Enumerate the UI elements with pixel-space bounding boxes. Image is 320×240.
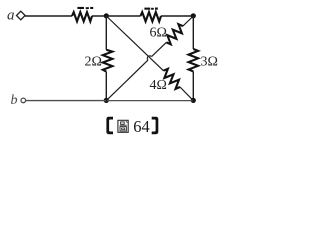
wire R1 to node TL [92,15,106,17]
resistor 3ohm [189,49,199,71]
node TR [191,13,196,18]
resistor 2ohm [103,50,113,72]
wire 6ohm to TR [183,16,193,26]
wire TL diagonal to 4ohm [106,16,163,71]
resistor R2 [141,12,162,21]
cut label above R1 [77,7,93,9]
resistor 6ohm [166,24,183,44]
wire 2ohm to BL [105,72,107,101]
node TL [104,13,109,18]
resistor 4ohm [163,69,180,89]
wire BL to BR [106,100,193,102]
terminal b [21,98,26,103]
caption left bracket [106,117,113,134]
caption figure glyph [118,120,128,132]
svg-text:2Ω: 2Ω [85,55,102,70]
wire BL diagonal to hop [106,60,148,101]
wire a to R1 [25,15,72,17]
terminal a [17,11,26,20]
svg-text:4Ω: 4Ω [150,78,167,93]
wire 4ohm to BR [180,87,193,101]
resistor R1 [72,12,92,21]
node BL [104,98,109,103]
node BR [191,98,196,103]
svg-text:6Ω: 6Ω [150,26,167,41]
svg-text:b: b [11,93,18,108]
wire TL down [105,16,107,50]
svg-text:3Ω: 3Ω [201,55,218,70]
crossover hop [147,56,151,60]
wire TR down [192,16,194,49]
wire R2 to node TR [161,15,193,17]
wire TL to R2 [106,15,140,17]
svg-text:64: 64 [133,117,150,136]
cut label above R2 [144,8,157,10]
svg-text:a: a [7,8,15,24]
wire hop to 6ohm [152,42,167,56]
wire b to BL [26,100,107,102]
caption right bracket [152,117,159,134]
wire 3ohm to BR [192,71,194,100]
